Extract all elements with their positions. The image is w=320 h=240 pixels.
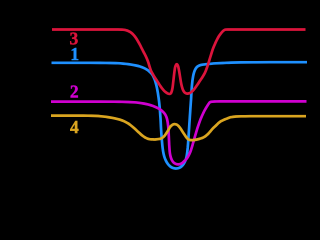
curve 2 (magenta, deep absorption profile)	[51, 101, 307, 164]
svg-text:4: 4	[70, 117, 79, 137]
svg-text:1: 1	[70, 44, 79, 64]
curve 4 (orange, shallow self-reversed profile)	[51, 116, 306, 141]
curve 3 (red, self-reversed absorption profile)	[52, 30, 306, 94]
svg-text:2: 2	[70, 82, 79, 102]
curve 1 (blue, deep narrow absorption profile)	[52, 62, 308, 168]
